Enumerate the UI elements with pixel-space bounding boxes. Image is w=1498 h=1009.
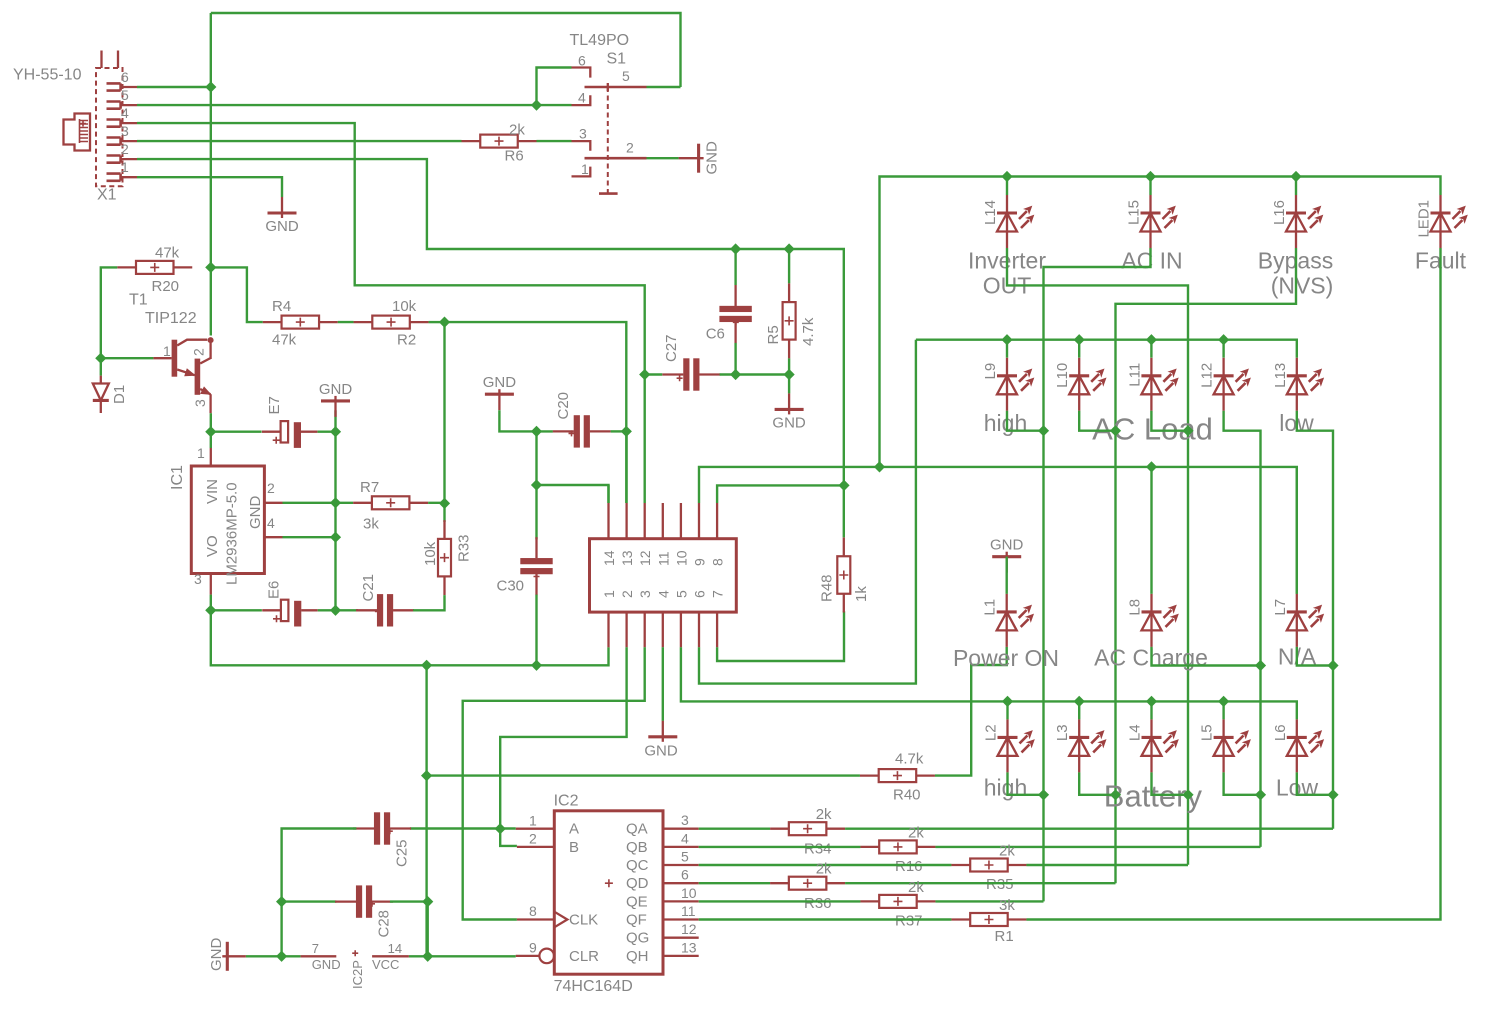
- wire JP1 pin9 to LED block: [699, 467, 1297, 594]
- junction L6 join: [1327, 789, 1338, 800]
- C27 origin: [677, 375, 683, 381]
- wire L11 top: [1150, 340, 1152, 358]
- svg-text:6: 6: [121, 69, 129, 85]
- junction L9 join: [1038, 425, 1049, 436]
- wire X1 pin5 to S1 pin4: [137, 104, 572, 106]
- svg-text:14: 14: [601, 550, 617, 566]
- X1 pin 5 fork: [107, 102, 121, 109]
- junction rail3 L4: [1146, 696, 1157, 707]
- svg-text:R20: R20: [152, 278, 180, 295]
- IC1 pin 3 lead: [210, 574, 212, 595]
- svg-text:3: 3: [579, 126, 587, 142]
- resistor R1: [951, 913, 1026, 926]
- wire X1 pin6 to junction: [137, 86, 211, 88]
- wire QF to R1: [699, 918, 952, 920]
- svg-text:CLR: CLR: [569, 948, 599, 965]
- LED L16: [1286, 195, 1323, 248]
- LED L3: [1069, 719, 1106, 772]
- wire L3 bottom: [1079, 772, 1115, 794]
- wire S1 pin5 contact: [647, 86, 681, 88]
- resistor R20: [117, 261, 192, 274]
- junction IC2 pin1 node: [495, 823, 506, 834]
- svg-text:3: 3: [681, 812, 689, 828]
- LED L7: [1287, 594, 1324, 647]
- junction rail3 L3: [1074, 696, 1085, 707]
- svg-text:L12: L12: [1199, 363, 1216, 388]
- wire E6 right: [318, 609, 336, 611]
- wire QB to R16: [699, 846, 861, 848]
- svg-text:S1: S1: [607, 51, 627, 68]
- wire L14 top: [1006, 177, 1008, 196]
- C28 origin: [369, 901, 375, 907]
- wire C6 R5 bottom link: [736, 373, 790, 375]
- IC2 output pin 3 lead: [663, 828, 699, 830]
- wire top LED rail: [880, 177, 1441, 467]
- wire node to C20: [537, 430, 553, 432]
- junction E7 left node: [205, 426, 216, 437]
- wire C25 left corner: [282, 829, 357, 902]
- wire L8 bottom: [1152, 647, 1261, 666]
- JP1 top pin 10 lead: [680, 503, 682, 539]
- svg-text:L10: L10: [1054, 363, 1071, 388]
- wire R7 to junction: [428, 502, 444, 504]
- svg-text:6: 6: [681, 867, 689, 883]
- junction R2 right: [439, 317, 450, 328]
- IC2 pin 8 CLK lead: [517, 918, 554, 920]
- junction C6 top: [730, 243, 741, 254]
- wire L2 top: [1006, 701, 1008, 719]
- svg-text:L3: L3: [1054, 724, 1071, 741]
- svg-text:12: 12: [681, 921, 697, 937]
- X1 pin 2 fork: [107, 156, 121, 163]
- svg-text:11: 11: [681, 903, 696, 919]
- svg-text:QH: QH: [626, 948, 649, 965]
- svg-text:2k: 2k: [999, 843, 1015, 860]
- IC2 output pin 12 lead: [663, 937, 699, 939]
- svg-text:CLK: CLK: [569, 912, 598, 929]
- wire node to C21: [336, 609, 358, 611]
- X1 pin 3 fork: [107, 138, 121, 145]
- IC2 output pin 5 lead: [663, 864, 699, 866]
- svg-text:QC: QC: [626, 857, 649, 874]
- svg-text:9: 9: [529, 940, 537, 956]
- junction rail at C28 feed: [421, 660, 432, 671]
- svg-text:IC2P: IC2P: [350, 960, 365, 989]
- JP1 top pin 14 lead: [607, 503, 609, 539]
- svg-text:R33: R33: [456, 534, 473, 562]
- resistor R4: [263, 316, 338, 329]
- IC2P origin: [352, 950, 358, 956]
- capacitor E7: [262, 421, 318, 448]
- junction rail at C30: [531, 660, 542, 671]
- junction R20 right: [205, 262, 216, 273]
- wire IC1 pin2 to node: [283, 502, 336, 504]
- wire R36 to L10 column: [845, 882, 1115, 884]
- svg-text:GND: GND: [483, 374, 517, 391]
- wire C28 right: [390, 900, 428, 902]
- JP1 top pin 11 lead: [662, 503, 664, 539]
- svg-text:AC IN: AC IN: [1121, 248, 1182, 274]
- wire L5 top: [1222, 701, 1224, 719]
- svg-text:X1: X1: [97, 187, 117, 204]
- X1 pin 1 lead: [121, 176, 137, 178]
- wire JP1 pin8 to R48 node: [717, 485, 844, 503]
- wire C28 left: [282, 900, 337, 902]
- resistor R33: [438, 520, 451, 595]
- JP1 bottom pin 4 lead: [662, 612, 664, 647]
- svg-text:B: B: [569, 839, 579, 856]
- wire IC1 pin1: [210, 432, 212, 448]
- svg-text:10k: 10k: [422, 541, 439, 566]
- junction R5 top: [784, 243, 795, 254]
- IC2 pin 1 lead: [516, 828, 555, 830]
- wire GND node up: [334, 410, 336, 431]
- svg-text:QG: QG: [626, 930, 649, 947]
- svg-text:9: 9: [692, 558, 708, 566]
- svg-text:2k: 2k: [816, 861, 832, 878]
- wire C27 left: [645, 373, 663, 375]
- junction L3 join: [1110, 789, 1121, 800]
- wire JP1 pin13 up: [625, 431, 627, 503]
- IC2 pin 2 lead: [517, 846, 554, 848]
- resistor R35: [951, 859, 1026, 872]
- svg-text:3: 3: [637, 590, 653, 598]
- svg-text:2k: 2k: [816, 806, 832, 823]
- resistor R40: [860, 769, 935, 782]
- IC2 origin: [605, 879, 613, 887]
- wire gnd to pin7 stub: [246, 955, 301, 957]
- svg-text:4: 4: [578, 90, 586, 106]
- capacitor C28: [335, 885, 393, 917]
- wire GND vertical IC1: [334, 432, 336, 611]
- switch S1 pin 1 lead: [572, 167, 591, 177]
- junction L11 join: [1182, 425, 1193, 436]
- svg-text:IC2: IC2: [554, 793, 579, 810]
- LED L8: [1142, 594, 1179, 647]
- svg-text:L11: L11: [1126, 363, 1143, 387]
- C25 origin: [387, 828, 393, 834]
- switch S1 pin 3 lead: [572, 141, 591, 151]
- wire JP1 pin7 to R48: [717, 611, 844, 661]
- wire C20 to junction: [611, 430, 627, 432]
- wire top rail to S1 pin5: [211, 13, 681, 87]
- connector X1 top stubs: [102, 51, 119, 69]
- IC2 output pin 13 lead: [663, 955, 699, 957]
- wire L16 top: [1295, 177, 1297, 196]
- svg-text:GND: GND: [644, 743, 678, 760]
- wire L2 bottom: [1008, 772, 1044, 794]
- junction rail L15: [1145, 171, 1156, 182]
- wire L3 top: [1078, 701, 1080, 719]
- JP1 top pin 13 lead: [625, 503, 627, 539]
- svg-text:Power ON: Power ON: [953, 645, 1059, 671]
- IC2P pin 14 VCC stub: [372, 955, 409, 957]
- svg-text:3: 3: [194, 571, 202, 587]
- resistor R6: [462, 135, 537, 148]
- svg-text:11: 11: [655, 551, 671, 566]
- wire L4 top: [1150, 701, 1152, 719]
- junction E7 right node: [330, 426, 341, 437]
- wire QE to R37: [699, 900, 861, 902]
- wire pin2 node to R7: [336, 502, 354, 504]
- svg-text:C20: C20: [555, 392, 572, 420]
- X1 pin 6 lead: [121, 86, 137, 88]
- wire IC1 pin3 to node: [210, 595, 212, 611]
- junction rail2 L9: [1001, 334, 1012, 345]
- svg-text:C25: C25: [394, 839, 411, 867]
- svg-text:IC1: IC1: [169, 465, 186, 490]
- IC2 output pin 4 lead: [663, 846, 699, 848]
- svg-text:2: 2: [267, 480, 275, 496]
- svg-text:C28: C28: [376, 910, 393, 938]
- LED L6: [1287, 719, 1324, 772]
- svg-text:L13: L13: [1272, 363, 1289, 388]
- wire C20 node to pin13: [625, 431, 627, 503]
- JP1 top pin 9 lead: [698, 503, 700, 539]
- wire E6 left: [211, 609, 262, 611]
- wire L5 bottom: [1224, 772, 1261, 794]
- junction R5 bottom: [784, 369, 795, 380]
- IC2P pin 7 GND stub: [301, 955, 337, 957]
- svg-text:L16: L16: [1271, 200, 1288, 225]
- resistor R7: [353, 496, 428, 509]
- wire R35 to L11 column: [1026, 864, 1188, 866]
- svg-text:R48: R48: [819, 574, 836, 602]
- resistor R48: [837, 538, 850, 613]
- C30 origin: [534, 574, 540, 580]
- svg-text:L7: L7: [1272, 599, 1289, 616]
- svg-text:5: 5: [673, 590, 689, 598]
- svg-text:C27: C27: [663, 334, 680, 362]
- junction C20 right node: [621, 426, 632, 437]
- capacitor C6: [719, 285, 751, 343]
- ground above C20: [485, 389, 514, 410]
- resistor R36: [770, 877, 845, 890]
- regulator IC1 box: [191, 466, 264, 574]
- junction C20 left node: [531, 426, 542, 437]
- junction rail3 L2: [1002, 696, 1013, 707]
- wire R20 left to base: [101, 267, 154, 358]
- JP1 bottom pin 6 lead: [698, 612, 700, 647]
- wire L11 bottom: [1151, 411, 1188, 431]
- svg-text:5: 5: [622, 68, 630, 84]
- wire node to E7: [211, 431, 262, 433]
- wire R2 junction to C20 node: [445, 322, 627, 431]
- wire R5 top: [788, 249, 790, 283]
- junction pin14 tap: [531, 479, 542, 490]
- wire L4 bottom: [1152, 772, 1189, 794]
- svg-text:R2: R2: [397, 332, 416, 349]
- LED L10: [1069, 358, 1106, 411]
- svg-text:3k: 3k: [999, 897, 1015, 914]
- IC1 pin 2 lead: [264, 502, 282, 504]
- resistor R16: [860, 840, 935, 853]
- X1 plug origin: [80, 121, 86, 127]
- svg-text:13: 13: [619, 550, 635, 566]
- svg-text:5: 5: [681, 849, 689, 865]
- svg-text:(NVS): (NVS): [1271, 273, 1334, 299]
- wire JP1 pin1 up rail handled: [607, 485, 609, 503]
- IC1 pin 4 lead: [264, 536, 282, 538]
- wire VCC to CLR: [409, 955, 516, 957]
- svg-text:4.7k: 4.7k: [895, 751, 924, 768]
- LED L2: [998, 719, 1035, 772]
- wire L8 top: [1150, 467, 1152, 594]
- wire R16 to L12 column: [935, 846, 1260, 848]
- wire L6 bottom: [1297, 772, 1333, 794]
- svg-text:R1: R1: [995, 928, 1014, 945]
- wire JP1 pin4 to GND: [662, 647, 664, 721]
- connector X1 outline: [96, 68, 123, 186]
- junction E6 left node: [205, 605, 216, 616]
- wire X1 pin6 vertical net: [210, 13, 212, 336]
- wire L14 bottom to column: [1007, 248, 1188, 865]
- wire R4 to R2: [338, 321, 354, 323]
- svg-text:C21: C21: [360, 574, 377, 602]
- wire R5 bottom: [788, 358, 790, 393]
- svg-text:TL49PO: TL49PO: [570, 32, 630, 49]
- svg-text:GND: GND: [319, 381, 353, 398]
- svg-text:4: 4: [681, 830, 689, 846]
- svg-text:2: 2: [619, 590, 635, 598]
- svg-text:GND: GND: [772, 414, 806, 431]
- junction C6 bottom node: [730, 369, 741, 380]
- svg-text:LED1: LED1: [1416, 200, 1433, 238]
- svg-text:L15: L15: [1126, 200, 1143, 225]
- junction rail L14: [1001, 171, 1012, 182]
- C20 origin: [569, 430, 575, 436]
- resistor R34: [770, 822, 845, 835]
- wire X1 pin4 to C27 node: [137, 123, 645, 374]
- wire R34 to L13 column: [845, 828, 1333, 830]
- svg-text:L14: L14: [982, 200, 999, 225]
- X1 pin 4 lead: [121, 122, 137, 124]
- svg-text:R34: R34: [804, 841, 832, 858]
- ground above E7: [321, 396, 350, 417]
- wire R6 to S1 pin3: [537, 140, 572, 142]
- JP1 bottom pin 7 lead: [716, 612, 718, 647]
- JP1 bottom pin 3 lead: [644, 612, 646, 647]
- junction L10 join: [1110, 425, 1121, 436]
- ground S1 pin2 rotated: [679, 144, 704, 173]
- svg-text:C30: C30: [497, 578, 525, 595]
- svg-text:L9: L9: [982, 363, 999, 380]
- JP1 bottom pin 1 lead: [607, 612, 609, 647]
- wire rail2: [916, 340, 1297, 358]
- wire IC1 pin4 to node: [283, 536, 336, 538]
- wire 5V rail: [211, 610, 609, 665]
- LED L4: [1142, 719, 1179, 772]
- svg-text:47k: 47k: [272, 332, 297, 349]
- svg-text:L2: L2: [983, 724, 1000, 741]
- capacitor E6: [262, 600, 318, 627]
- junction IC1 pin4 node: [330, 532, 341, 543]
- junction L4 join: [1182, 789, 1193, 800]
- wire D1 to base node: [100, 358, 102, 375]
- svg-text:2: 2: [529, 831, 537, 847]
- svg-text:GND: GND: [247, 496, 264, 530]
- LED L13: [1287, 358, 1324, 411]
- svg-text:2k: 2k: [908, 879, 924, 896]
- wire C28 node down: [427, 902, 429, 957]
- svg-text:L6: L6: [1272, 724, 1289, 741]
- ground below R5: [775, 393, 804, 414]
- C21 origin: [375, 609, 381, 615]
- wire L10 bottom: [1079, 411, 1115, 431]
- junction T1 base node: [95, 353, 106, 364]
- X1 pin 3 lead: [121, 140, 137, 142]
- junction R40 tap: [421, 770, 432, 781]
- wire L12 bottom: [1224, 411, 1261, 847]
- wire JP1 pin2 to IC2: [500, 647, 626, 846]
- svg-text:2: 2: [626, 140, 634, 156]
- junction S1 pin4 net: [531, 100, 542, 111]
- svg-text:2k: 2k: [509, 122, 525, 139]
- wire L9 top: [1006, 340, 1008, 358]
- svg-text:L5: L5: [1199, 724, 1216, 741]
- svg-text:GND: GND: [312, 957, 341, 972]
- svg-text:8: 8: [529, 903, 537, 919]
- svg-text:YH-55-10: YH-55-10: [13, 67, 82, 84]
- resistor R5: [783, 283, 796, 358]
- wire E7 to GND node: [318, 431, 336, 433]
- wire L7 bottom: [1297, 647, 1333, 666]
- wire L10 top: [1078, 340, 1080, 358]
- svg-text:A: A: [569, 821, 579, 838]
- svg-text:QE: QE: [626, 893, 648, 910]
- wire L9 bottom: [1007, 411, 1044, 431]
- switch S1 actuator dashed line: [607, 87, 609, 194]
- JP1 top pin 8 lead: [716, 503, 718, 539]
- wire C27 right: [720, 373, 736, 375]
- svg-text:1: 1: [163, 343, 171, 359]
- junction C28 right node: [422, 896, 433, 907]
- svg-text:47k: 47k: [155, 245, 180, 262]
- IC2 output pin 10 lead: [663, 900, 699, 902]
- wire X1 pin1 to GND: [137, 177, 282, 197]
- wire L16 bottom to column: [1116, 248, 1297, 883]
- svg-text:C6: C6: [706, 325, 725, 342]
- svg-text:LM2936MP-5.0: LM2936MP-5.0: [224, 482, 241, 585]
- wire S1 pin2 to GND: [647, 157, 679, 159]
- ground IC2 rotated: [222, 942, 246, 971]
- X1 plug symbol: [64, 114, 91, 151]
- svg-text:10k: 10k: [392, 298, 417, 315]
- svg-text:6: 6: [692, 590, 708, 598]
- svg-text:3: 3: [121, 123, 129, 139]
- svg-text:high: high: [984, 410, 1027, 436]
- svg-text:7: 7: [710, 590, 726, 598]
- wire GND to C20 node: [499, 410, 536, 431]
- IC1 pin 1 lead: [210, 448, 212, 466]
- svg-text:QA: QA: [626, 821, 648, 838]
- wire R37 to L9 column: [935, 900, 1043, 902]
- wire S1 pin4 to pin6 link: [537, 68, 572, 106]
- LED L11: [1141, 358, 1178, 411]
- svg-text:high: high: [984, 775, 1027, 801]
- junction pin9 at big vertical: [874, 461, 885, 472]
- svg-text:12: 12: [637, 550, 653, 566]
- capacitor C27: [662, 358, 720, 390]
- svg-text:R16: R16: [895, 858, 923, 875]
- junction rail L16: [1290, 171, 1301, 182]
- switch S1 top contact bar pin 5: [585, 86, 647, 89]
- svg-text:R36: R36: [804, 895, 832, 912]
- junction L7 join: [1327, 660, 1338, 671]
- wire C27 node to pin12: [644, 375, 646, 504]
- X1 pin 5 lead: [121, 104, 137, 106]
- wire L7 top: [1296, 467, 1298, 594]
